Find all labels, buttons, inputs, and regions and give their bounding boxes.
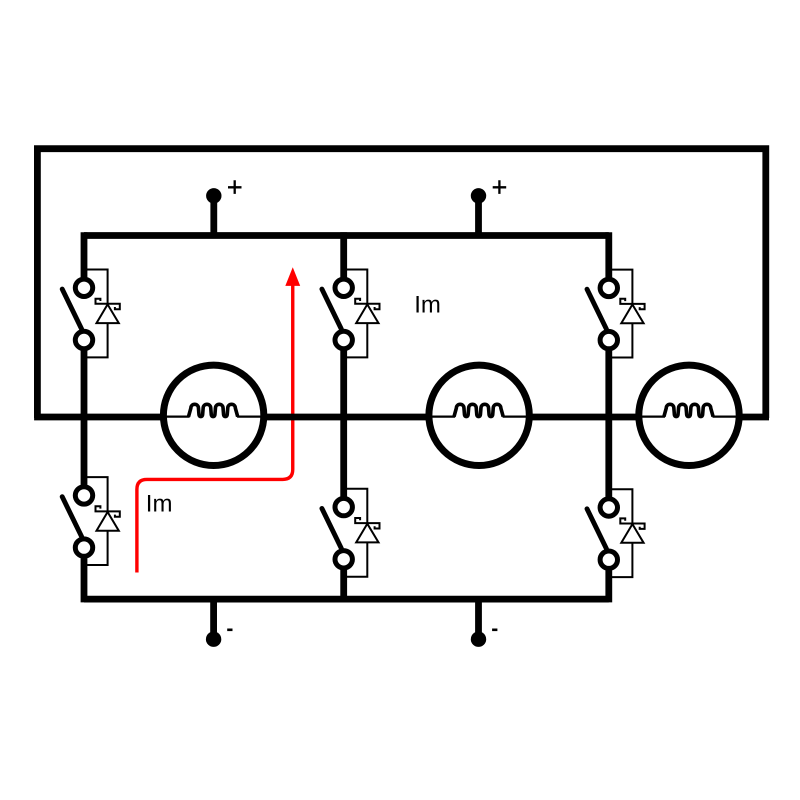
current path Im (red), drawn beneath the black wires [137, 285, 293, 573]
negative terminal 1 stub [210, 599, 217, 639]
leg 1 middle wire [81, 350, 88, 485]
switch S6 lower right [587, 489, 645, 577]
negative terminal 2 stub [475, 599, 482, 639]
motor M3 [639, 365, 739, 465]
switch S4 lower left [62, 477, 120, 565]
top DC bus wire [84, 232, 609, 239]
negative terminal 1 dot [206, 632, 221, 647]
leg 2 upper wire [340, 232, 347, 277]
leg 2 lower wire [340, 570, 347, 603]
outer wrap-around loop wire [37, 149, 765, 418]
positive terminal 1 stub [210, 196, 217, 236]
bottom DC bus wire [84, 596, 609, 603]
switch S1 upper left [62, 270, 120, 358]
leg 3 lower wire [605, 570, 612, 602]
middle phase rail wire segment 4 [741, 414, 769, 421]
positive terminal 1 dot [206, 188, 221, 203]
motor M2 [429, 365, 529, 465]
leg 3 upper wire [605, 232, 612, 277]
minus label 1 [227, 628, 232, 631]
red arrowhead [285, 267, 300, 286]
plus label 1 [228, 180, 242, 194]
middle phase rail wire segment 3 [531, 414, 637, 421]
leg 1 lower wire [81, 558, 88, 602]
middle phase rail wire segment 2 [266, 414, 427, 421]
switch S5 lower middle [322, 489, 380, 577]
leg 1 upper wire [81, 232, 88, 277]
plus label 2 [493, 180, 507, 194]
positive terminal 2 stub [475, 196, 482, 236]
svg-text:Im: Im [146, 490, 173, 517]
leg 3 middle wire [605, 350, 612, 497]
svg-text:Im: Im [414, 292, 441, 319]
motor M1 [163, 365, 263, 465]
negative terminal 2 dot [471, 632, 486, 647]
switch S2 upper middle [322, 270, 380, 358]
switch S3 upper right [587, 270, 645, 358]
minus label 2 [492, 628, 497, 631]
positive terminal 2 dot [471, 188, 486, 203]
leg 2 middle wire [340, 350, 347, 497]
middle phase rail wire segment 1 [34, 414, 161, 421]
